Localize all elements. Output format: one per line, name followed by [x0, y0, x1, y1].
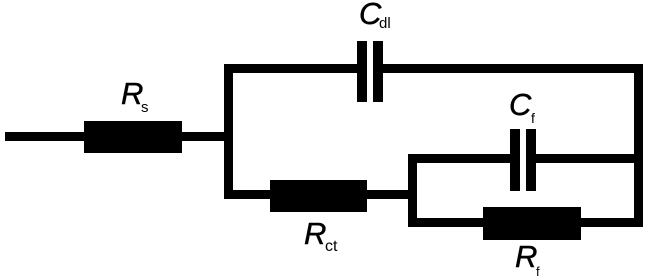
label R_f subscript [536, 265, 540, 278]
label C_dl subscript [379, 16, 391, 31]
capacitor C_f right plate [526, 129, 536, 191]
wire: right vertical bus [634, 64, 643, 227]
wire: top rail left segment to C_dl [224, 64, 357, 73]
wire: bottom rail through R_f [408, 218, 643, 227]
wire: top rail right segment from C_dl [383, 64, 643, 73]
label C_f subscript [531, 111, 535, 125]
label R_ct subscript [325, 239, 337, 255]
node A: left junction vertical wire [224, 64, 233, 199]
wire: C_f rail right segment [536, 154, 643, 163]
label C_f main letter [509, 89, 531, 120]
resistor R_s body [84, 121, 182, 153]
resistor R_f body [483, 207, 581, 240]
wire: C_f rail left segment [408, 154, 510, 163]
label R_ct main letter [304, 218, 326, 249]
capacitor C_dl left plate [357, 41, 367, 102]
label R_s main letter [121, 78, 143, 109]
wire: middle branch through R_ct [224, 190, 417, 199]
label R_f main letter [515, 241, 537, 272]
capacitor C_f left plate [510, 129, 520, 191]
node B: vertical wire joining R_ct to Cf/Rf loop [408, 154, 417, 227]
capacitor C_dl right plate [373, 41, 383, 102]
wire: left lead into R_s [5, 132, 233, 141]
label C_dl main letter [359, 0, 381, 29]
resistor R_ct body [270, 180, 367, 212]
label R_s subscript [141, 100, 149, 115]
